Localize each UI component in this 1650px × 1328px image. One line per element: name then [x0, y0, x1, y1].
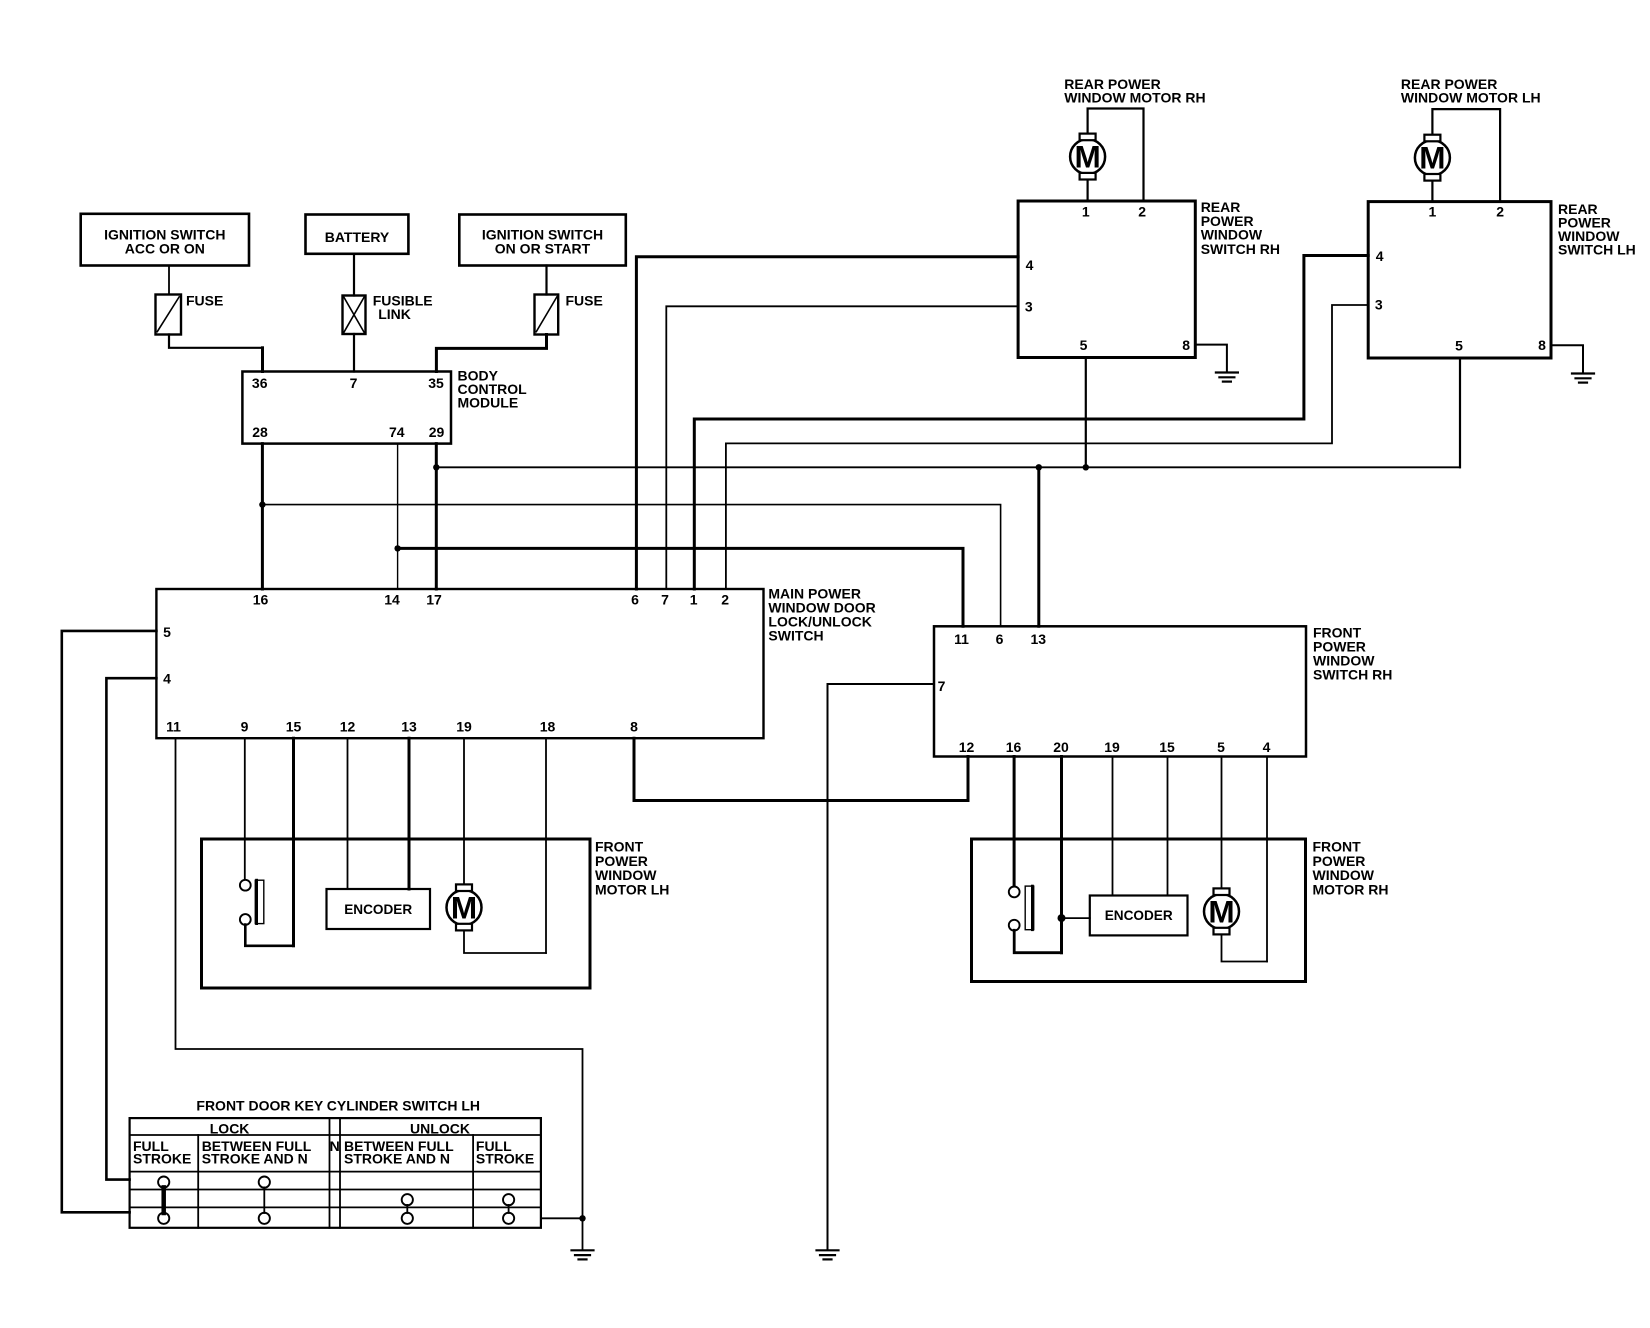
ground RPWS RH [1216, 373, 1238, 382]
encoder RH box [1090, 896, 1188, 936]
wire battery to fusible link [353, 254, 355, 296]
svg-text:M: M [451, 890, 477, 926]
wire main 9 to contact [244, 738, 246, 879]
wire main 19 to motor LH [463, 738, 465, 884]
wire table to ground node [541, 1217, 583, 1219]
svg-text:4: 4 [1026, 257, 1034, 273]
front door key cylinder switch table [130, 1098, 541, 1228]
front power window motor RH box [972, 839, 1389, 982]
svg-text:11: 11 [166, 719, 181, 735]
wire main 8 to FPWS RH 12 [634, 738, 968, 800]
svg-text:MOTOR LH: MOTOR LH [595, 881, 669, 897]
actuator bar RH [1025, 886, 1034, 930]
svg-text:14: 14 [384, 591, 400, 607]
wire FPWS RH pin 7 to ground [828, 684, 935, 1249]
svg-text:6: 6 [996, 631, 1004, 647]
svg-text:N: N [330, 1138, 340, 1154]
svg-text:9: 9 [241, 719, 249, 735]
svg-text:STROKE AND N: STROKE AND N [344, 1151, 450, 1167]
svg-text:1: 1 [1082, 204, 1090, 220]
rear power window motor LH [1401, 76, 1541, 201]
rear power window switch RH box [1018, 199, 1280, 357]
ignition switch ON/START box [459, 215, 626, 266]
svg-text:SWITCH RH: SWITCH RH [1313, 666, 1392, 682]
wire FPWS 15 to encoder RH [1167, 757, 1169, 896]
key cyl contacts unlock between [402, 1194, 413, 1224]
actuator bar LH [255, 880, 263, 923]
node branch to RPWS RH pin5 [1083, 464, 1089, 470]
wire main 11 to key cyl ground node [176, 738, 583, 1249]
wire main 4 to key cylinder row A [106, 678, 156, 1179]
wire main 13 to encoder LH [408, 738, 411, 889]
svg-text:1: 1 [1429, 204, 1437, 220]
svg-text:ON OR START: ON OR START [495, 241, 591, 257]
wire 1: main switch to RPWS LH pin 4 [694, 256, 1368, 590]
svg-text:WINDOW MOTOR LH: WINDOW MOTOR LH [1401, 90, 1541, 106]
wire FPWS 16 to contact [1013, 757, 1016, 887]
svg-text:16: 16 [253, 591, 269, 607]
svg-text:36: 36 [252, 375, 268, 391]
svg-text:4: 4 [163, 670, 171, 686]
svg-text:19: 19 [456, 719, 472, 735]
svg-text:7: 7 [938, 678, 946, 694]
svg-text:12: 12 [959, 739, 975, 755]
svg-text:4: 4 [1263, 739, 1271, 755]
wire BCM 28 to main switch 16 [261, 444, 264, 589]
svg-text:1: 1 [690, 591, 698, 607]
fuse F2 [535, 293, 603, 335]
battery box [306, 215, 409, 254]
wire net to FPWS RH pin 11 [398, 548, 963, 626]
rear power window motor RH [1064, 76, 1205, 201]
svg-text:12: 12 [340, 719, 356, 735]
svg-text:2: 2 [1138, 204, 1146, 220]
contact circles LH motor [240, 880, 251, 891]
svg-text:20: 20 [1053, 739, 1069, 755]
wire RPWS RH pin 5 [1085, 358, 1087, 468]
wire fusible link to BCM pin 7 [353, 334, 355, 372]
wire main 12 to encoder LH [347, 738, 349, 889]
svg-text:ACC OR ON: ACC OR ON [125, 241, 205, 257]
svg-text:M: M [1208, 894, 1234, 930]
main power window door lock/unlock switch box [156, 586, 875, 739]
svg-text:13: 13 [401, 719, 417, 735]
svg-text:15: 15 [286, 719, 302, 735]
ignition switch ACC box [81, 214, 249, 266]
node on pin74 wire [394, 545, 400, 551]
svg-text:LINK: LINK [378, 306, 411, 322]
svg-text:FRONT DOOR KEY CYLINDER SWITCH: FRONT DOOR KEY CYLINDER SWITCH LH [196, 1098, 480, 1114]
svg-text:4: 4 [1376, 248, 1384, 264]
svg-text:19: 19 [1104, 739, 1120, 755]
wire contact to FPWS 20 [1014, 930, 1061, 952]
svg-text:8: 8 [1182, 337, 1190, 353]
wire net B (y=467) to rear switches [436, 466, 1460, 468]
svg-text:28: 28 [252, 424, 268, 440]
RPWS LH pin 8 to ground [1551, 345, 1583, 372]
svg-text:FUSE: FUSE [566, 293, 603, 309]
svg-text:5: 5 [1217, 739, 1225, 755]
wire BCM 74 to main switch 14 [397, 444, 399, 589]
svg-text:M: M [1419, 140, 1445, 176]
svg-text:BATTERY: BATTERY [325, 229, 390, 245]
wire fuse F2 to BCM pin 35 [436, 335, 546, 372]
node on pin28 wire [259, 501, 265, 507]
front power window motor LH box [202, 839, 670, 988]
wire 2: main switch to RPWS LH pin 3 [726, 305, 1368, 589]
wire ACC to fuse [168, 266, 170, 295]
key cyl contacts lock full stroke [158, 1177, 169, 1224]
wire 7: main switch to RPWS RH pin 3 [666, 306, 1018, 589]
svg-text:ENCODER: ENCODER [1105, 908, 1173, 923]
fuse F1 [156, 293, 224, 335]
wire motor RH to FPWS 4 [1266, 757, 1268, 962]
svg-text:WINDOW MOTOR RH: WINDOW MOTOR RH [1064, 90, 1205, 106]
svg-text:6: 6 [631, 591, 639, 607]
svg-text:UNLOCK: UNLOCK [410, 1121, 470, 1137]
node encoder RH link [1058, 914, 1066, 922]
svg-text:16: 16 [1006, 739, 1022, 755]
svg-text:2: 2 [721, 591, 729, 607]
svg-text:18: 18 [540, 719, 556, 735]
svg-text:SWITCH: SWITCH [768, 627, 823, 643]
ground key cylinder [572, 1250, 594, 1259]
fusible link [343, 293, 433, 334]
wire RPWS LH pin 5 [1459, 358, 1461, 467]
svg-text:5: 5 [1080, 337, 1088, 353]
wire motor LH to main 18 [545, 738, 547, 953]
svg-text:5: 5 [1455, 338, 1463, 354]
body control module box [242, 368, 527, 444]
motor LH [447, 884, 547, 953]
svg-text:FUSE: FUSE [186, 293, 223, 309]
wire fuse F1 to BCM pin 36 [169, 335, 263, 348]
node branch to FPWS RH pin13 [1036, 464, 1042, 470]
wire net to FPWS RH pin 6 [262, 505, 1000, 627]
ground RPWS LH [1572, 374, 1594, 383]
svg-text:MODULE: MODULE [458, 395, 519, 411]
svg-text:STROKE AND N: STROKE AND N [202, 1151, 308, 1167]
rear power window switch LH box [1368, 201, 1636, 358]
svg-text:STROKE: STROKE [133, 1151, 191, 1167]
svg-text:17: 17 [426, 591, 442, 607]
svg-text:3: 3 [1375, 297, 1383, 313]
ground pin7 [817, 1250, 839, 1259]
svg-text:M: M [1074, 139, 1100, 175]
svg-text:35: 35 [428, 375, 444, 391]
wire contact to main 15 [245, 925, 293, 946]
contact circles RH motor [1009, 887, 1020, 898]
svg-text:SWITCH LH: SWITCH LH [1558, 242, 1636, 258]
node key cylinder / ground [579, 1215, 585, 1221]
svg-text:STROKE: STROKE [476, 1151, 534, 1167]
svg-text:MOTOR RH: MOTOR RH [1313, 881, 1389, 897]
svg-text:29: 29 [429, 424, 445, 440]
wire main 5 to key cylinder row C [62, 631, 157, 1212]
encoder LH box [327, 889, 431, 929]
svg-text:11: 11 [954, 631, 969, 647]
wire FPWS 19 to encoder RH [1112, 757, 1114, 896]
wire 6: main switch to RPWS RH pin 4 [636, 257, 1018, 589]
svg-text:SWITCH RH: SWITCH RH [1201, 241, 1280, 257]
RPWS RH pin 8 to ground [1195, 345, 1227, 372]
svg-text:8: 8 [630, 719, 638, 735]
svg-text:8: 8 [1538, 337, 1546, 353]
svg-text:ENCODER: ENCODER [344, 902, 412, 917]
node on pin29 wire [433, 464, 439, 470]
wire to FPWS RH pin 13 [1037, 467, 1040, 626]
key cyl contacts lock between [259, 1177, 270, 1224]
svg-text:3: 3 [1025, 299, 1033, 315]
svg-text:15: 15 [1159, 739, 1175, 755]
front power window switch RH box [934, 625, 1392, 757]
motor RH [1204, 888, 1267, 961]
svg-text:7: 7 [350, 375, 358, 391]
svg-text:7: 7 [661, 591, 669, 607]
key cyl contacts unlock full [503, 1194, 514, 1224]
svg-text:13: 13 [1031, 631, 1047, 647]
wire node to encoder RH [1062, 917, 1090, 919]
svg-text:LOCK: LOCK [210, 1121, 250, 1137]
wire ON/START to fuse [545, 266, 547, 295]
svg-text:74: 74 [389, 424, 405, 440]
svg-text:5: 5 [163, 624, 171, 640]
wire BCM 29 to main switch 17 [435, 444, 438, 589]
wire FPWS 5 to motor RH [1221, 757, 1223, 889]
svg-text:2: 2 [1496, 204, 1504, 220]
